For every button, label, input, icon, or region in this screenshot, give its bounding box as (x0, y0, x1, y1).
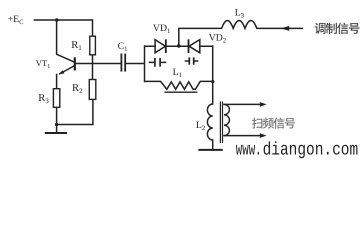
svg-text:www.: www. (236, 140, 262, 160)
svg-text:L2: L2 (196, 120, 206, 132)
svg-text:diangon.com: diangon.com (263, 140, 359, 160)
svg-text:L3: L3 (235, 7, 245, 19)
svg-text:L1: L1 (173, 67, 182, 79)
svg-text:VD1: VD1 (153, 23, 171, 35)
svg-text:C1: C1 (118, 41, 128, 53)
svg-text:VT1: VT1 (36, 58, 51, 70)
svg-text:R1: R1 (71, 40, 82, 52)
svg-text:VD2: VD2 (209, 33, 227, 45)
svg-text:+EC: +EC (8, 14, 25, 26)
svg-text:R2: R2 (72, 83, 83, 95)
svg-text:R3: R3 (38, 93, 49, 105)
